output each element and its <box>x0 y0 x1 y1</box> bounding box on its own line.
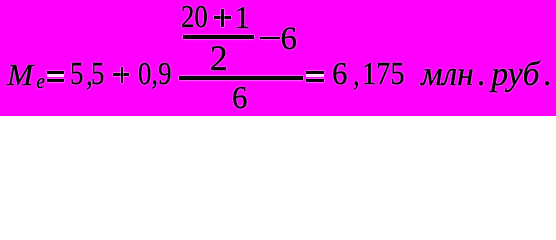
subscript e <box>36 73 45 93</box>
equals #1 bottom bar <box>47 79 65 82</box>
main fraction bar <box>179 76 303 80</box>
comma and second 5 <box>86 59 93 91</box>
plus #2 horizontal <box>214 16 231 19</box>
minus sign <box>260 37 279 40</box>
period 2 <box>544 58 552 92</box>
equals #2 bottom bar <box>306 79 324 82</box>
equals #1 white gap <box>47 74 65 77</box>
equals #2 top bar <box>306 71 324 74</box>
main denominator 6 <box>232 82 247 114</box>
plus #1 vertical <box>121 67 124 83</box>
result comma <box>353 59 360 91</box>
equals #2 white gap <box>306 74 324 77</box>
units млн <box>421 58 474 92</box>
numerator 1 <box>234 1 250 33</box>
numerator 6 <box>281 23 298 56</box>
5,5 <box>70 58 83 90</box>
small fraction bar <box>183 35 254 38</box>
numerator 20 <box>181 1 208 33</box>
equals #1 top bar <box>47 71 65 74</box>
small denominator 2 <box>210 40 228 76</box>
0,9 <box>138 58 171 90</box>
result 6 <box>332 58 347 90</box>
plus #1 horizontal <box>113 73 129 76</box>
result 175 <box>362 58 405 90</box>
period 1 <box>478 58 486 92</box>
plus #2 vertical <box>221 9 224 26</box>
units руб <box>491 58 539 92</box>
variable M <box>7 59 33 90</box>
